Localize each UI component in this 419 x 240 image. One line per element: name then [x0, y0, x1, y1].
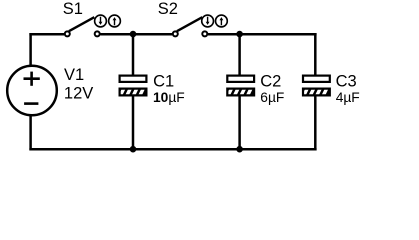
wire: node A down to C1 top plate [132, 34, 135, 76]
svg-text:C1: C1 [153, 72, 174, 90]
label C3 [336, 72, 357, 90]
wire: C3 bottom plate down to bottom rail [314, 96, 317, 150]
value label 6µF [260, 90, 284, 105]
value label 12V [64, 84, 93, 102]
wire: left vertical from top rail down to V1 top [29, 33, 32, 67]
capacitor C3 [302, 76, 331, 98]
node A junction dot (top of C1) [130, 31, 137, 38]
switch S1 actuator button: circled up arrow [109, 15, 121, 27]
wire: top rail left segment (V1 to S1) [29, 33, 64, 36]
svg-text:S1: S1 [63, 0, 83, 18]
switch S2 actuator button: circled up arrow [216, 15, 228, 27]
svg-text:6µF: 6µF [260, 90, 284, 105]
capacitor C2 [226, 76, 255, 98]
svg-text:12V: 12V [64, 84, 93, 102]
value label 10µF [153, 90, 185, 105]
value label 4µF [336, 90, 360, 105]
wire: C1 bottom plate down to bottom rail [132, 96, 135, 149]
svg-text:S2: S2 [158, 0, 178, 18]
label V1 [64, 66, 84, 84]
svg-text:C3: C3 [336, 72, 357, 90]
label S2 [158, 0, 178, 18]
label S1 [63, 0, 83, 18]
wire: left vertical from V1 bottom to bottom rail [29, 115, 32, 151]
wire: right vertical from top rail down to C3 top plate [314, 33, 317, 76]
wire: bottom rail [29, 148, 316, 151]
switch S1 [65, 17, 100, 36]
svg-text:V1: V1 [64, 66, 84, 84]
svg-text:4µF: 4µF [336, 90, 360, 105]
wire: S2 right terminal to top-right corner [208, 33, 317, 36]
node B junction dot (top of C2) [236, 31, 243, 38]
svg-text:C2: C2 [260, 72, 281, 90]
voltage source V1 [7, 66, 57, 116]
switch S1 actuator button: circled down arrow [95, 15, 107, 27]
svg-text:10µF: 10µF [153, 90, 185, 105]
wire: C2 bottom plate down to bottom rail [238, 96, 241, 149]
wire: S1 right terminal to S2 left terminal (through node A) [100, 33, 172, 36]
wire: node B down to C2 top plate [238, 34, 241, 76]
label C1 [153, 72, 174, 90]
junction dot: C2 at bottom rail [236, 146, 243, 153]
label C2 [260, 72, 281, 90]
switch S2 [173, 17, 208, 36]
switch S2 actuator button: circled down arrow [202, 15, 214, 27]
junction dot: C1 at bottom rail [130, 146, 137, 153]
capacitor C1 [119, 76, 148, 98]
